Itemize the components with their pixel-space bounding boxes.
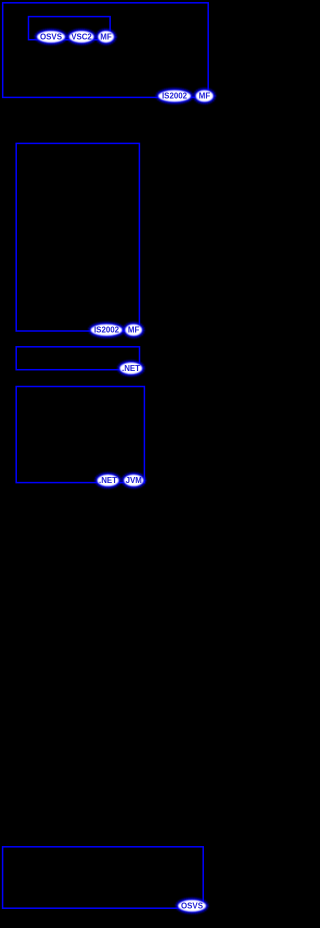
badge IS2002 row2 xyxy=(157,89,192,103)
badge OSVS row1 xyxy=(36,30,66,44)
badge MF row1 xyxy=(97,30,115,44)
box inner top subgroup xyxy=(29,17,111,40)
badge OSVS bottom xyxy=(177,899,207,913)
box bottom group xyxy=(3,847,204,908)
svg-text:JVM: JVM xyxy=(126,476,143,485)
svg-text:MF: MF xyxy=(199,92,211,101)
svg-text:IS2002: IS2002 xyxy=(94,326,120,335)
badge MF row2 xyxy=(195,89,215,103)
badge JVM row5 xyxy=(123,474,145,488)
box COBOL top group xyxy=(3,3,209,98)
box COBOL 2002 thin xyxy=(16,347,139,370)
svg-text:IS2002: IS2002 xyxy=(162,92,188,101)
svg-text:OSVS: OSVS xyxy=(40,32,62,41)
svg-text:.NET: .NET xyxy=(99,476,117,485)
svg-text:MF: MF xyxy=(128,326,140,335)
badge .NET row5 xyxy=(96,474,120,488)
badge .NET row4 xyxy=(119,361,144,375)
box COBOL-85 tall xyxy=(16,143,139,331)
svg-text:MF: MF xyxy=(100,32,112,41)
badge MF row3 xyxy=(124,323,143,337)
badge VSC2 row1 xyxy=(68,30,95,44)
svg-text:.NET: .NET xyxy=(122,364,140,373)
svg-text:VSC2: VSC2 xyxy=(71,32,92,41)
badge IS2002 row3 xyxy=(90,323,124,337)
svg-text:OSVS: OSVS xyxy=(181,901,203,910)
box COBOL 2014 xyxy=(16,387,144,483)
